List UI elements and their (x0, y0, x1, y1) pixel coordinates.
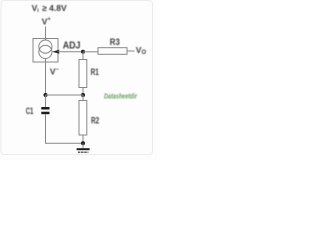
svg-text:Vi ≥ 4.8V: Vi ≥ 4.8V (32, 3, 67, 14)
wire node C to C1 (45, 95, 47, 107)
resistor R3 (98, 48, 127, 55)
capacitor C1 top plate (41, 107, 49, 110)
svg-text:Datasheetdir: Datasheetdir (104, 92, 138, 101)
border frame (1, 1, 153, 155)
wire input V+ to regulator top (45, 27, 47, 39)
wire R2 to node D (82, 135, 84, 143)
svg-text:R2: R2 (91, 116, 99, 127)
wire R3 to output (127, 50, 135, 52)
capacitor C1 bottom plate (41, 112, 49, 115)
wire through regulator (45, 39, 47, 63)
node A junction dot (81, 50, 85, 54)
regulator circle top (39, 40, 52, 53)
wire node A to R1 (82, 52, 84, 60)
ground bar (77, 148, 90, 150)
wire node D to ground (82, 143, 84, 148)
node B junction dot (81, 93, 85, 97)
svg-text:R3: R3 (110, 37, 120, 48)
node C junction dot (44, 93, 48, 97)
ground hatch (78, 151, 89, 153)
regulator circles fill (39, 40, 52, 59)
ADJ arrow head (52, 50, 59, 54)
resistor R2 (79, 101, 87, 136)
wire node B to R2 (82, 95, 84, 101)
wire node A to R3 (83, 51, 98, 53)
wire R1 to node B (82, 88, 84, 96)
svg-text:C1: C1 (26, 106, 34, 117)
svg-text:ADJ: ADJ (63, 40, 81, 52)
regulator U1 box (33, 39, 58, 63)
node D junction dot (81, 141, 85, 145)
ADJ wire (58, 51, 84, 53)
resistor R1 (79, 60, 87, 88)
regulator circle bottom (39, 45, 52, 58)
svg-text:R1: R1 (91, 67, 100, 78)
wire regulator V- down (45, 62, 47, 95)
wire node C to node B (46, 94, 84, 96)
wire C1 down to bottom rail (46, 114, 84, 143)
